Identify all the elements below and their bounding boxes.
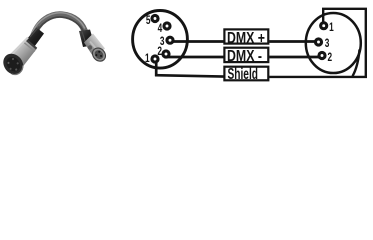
pin 3 right: [314, 37, 323, 46]
wiring diagram: [133, 9, 366, 80]
pin 3 right hole: [317, 41, 320, 44]
pin number labels: [145, 13, 334, 65]
pin 1 right hole: [322, 24, 325, 27]
pin 5 left: [150, 14, 159, 23]
wire pin1 down: [155, 59, 158, 76]
pin 2 right hole: [321, 54, 324, 57]
svg-text:1: 1: [329, 20, 334, 34]
svg-text:Shield: Shield: [228, 66, 259, 83]
pin 4 left: [162, 21, 171, 30]
svg-text:2: 2: [157, 44, 162, 58]
svg-text:DMX -: DMX -: [227, 48, 262, 65]
pin 2 left: [161, 49, 170, 58]
male face: [0, 50, 27, 79]
male barrel: [6, 39, 37, 71]
male barrel highlight: [11, 38, 28, 56]
pin 3 left hole: [169, 39, 172, 42]
Shield label box: [224, 67, 268, 81]
flange + shield wire right: pin1 up, across top, down right side, bottom to Shield box: [269, 9, 366, 77]
shield wire left: [155, 75, 225, 76]
3-pin XLR circle (right connector): [306, 13, 361, 73]
pin 4 left hole: [166, 25, 169, 28]
pin 2 left hole: [165, 53, 168, 56]
cable: [33, 14, 86, 37]
female barrel: [84, 34, 105, 59]
right connector corner arc: [353, 50, 360, 77]
wire DMX+ box to right pin3: [269, 40, 318, 43]
svg-text:DMX +: DMX +: [227, 30, 265, 47]
cable highlight top: [32, 13, 85, 34]
pin 5 left hole: [154, 17, 157, 20]
wire pin2 to DMX- box: [166, 56, 225, 59]
male barrel rear dark ring: [27, 40, 37, 49]
DMX- label box: [224, 48, 268, 62]
pin 1 left hole: [154, 58, 157, 61]
photo: XLR adapter cable: [0, 13, 108, 79]
wire DMX- box to right pin2: [269, 56, 322, 59]
svg-text:1: 1: [145, 51, 150, 65]
female barrel highlight: [90, 42, 98, 52]
svg-text:3: 3: [325, 36, 330, 50]
wire pin3 to DMX+ box: [170, 40, 225, 43]
female face: [90, 45, 108, 63]
female latch bump: [88, 45, 92, 49]
box labels: [227, 30, 265, 83]
female boot: [79, 30, 95, 48]
pin 1 right: [319, 21, 328, 30]
male boot: [27, 28, 45, 47]
svg-text:2: 2: [328, 50, 333, 64]
pin 2 right: [317, 51, 326, 60]
svg-text:4: 4: [158, 21, 163, 35]
svg-text:5: 5: [146, 13, 151, 27]
cable shading bottom: [35, 17, 84, 36]
5-pin XLR circle (left connector): [133, 11, 188, 69]
pin 1 left: [150, 54, 159, 63]
DMX+ label box: [224, 29, 268, 43]
pin 3 left: [165, 36, 174, 45]
